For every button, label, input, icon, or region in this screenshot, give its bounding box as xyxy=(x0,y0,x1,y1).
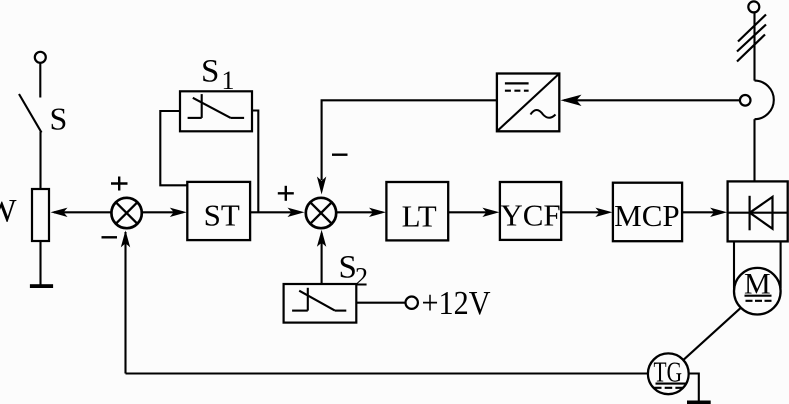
svg-text:+12V: +12V xyxy=(422,285,491,322)
svg-text:ST: ST xyxy=(204,198,240,233)
svg-text:S: S xyxy=(201,54,219,90)
svg-text:W: W xyxy=(0,194,17,230)
svg-text:MCP: MCP xyxy=(614,198,679,233)
svg-text:M: M xyxy=(744,268,771,301)
svg-text:S: S xyxy=(50,101,68,137)
svg-text:TG: TG xyxy=(654,357,683,388)
svg-text:YCF: YCF xyxy=(500,198,560,233)
svg-text:1: 1 xyxy=(222,66,235,95)
svg-text:2: 2 xyxy=(355,263,368,292)
svg-text:LT: LT xyxy=(402,199,437,234)
